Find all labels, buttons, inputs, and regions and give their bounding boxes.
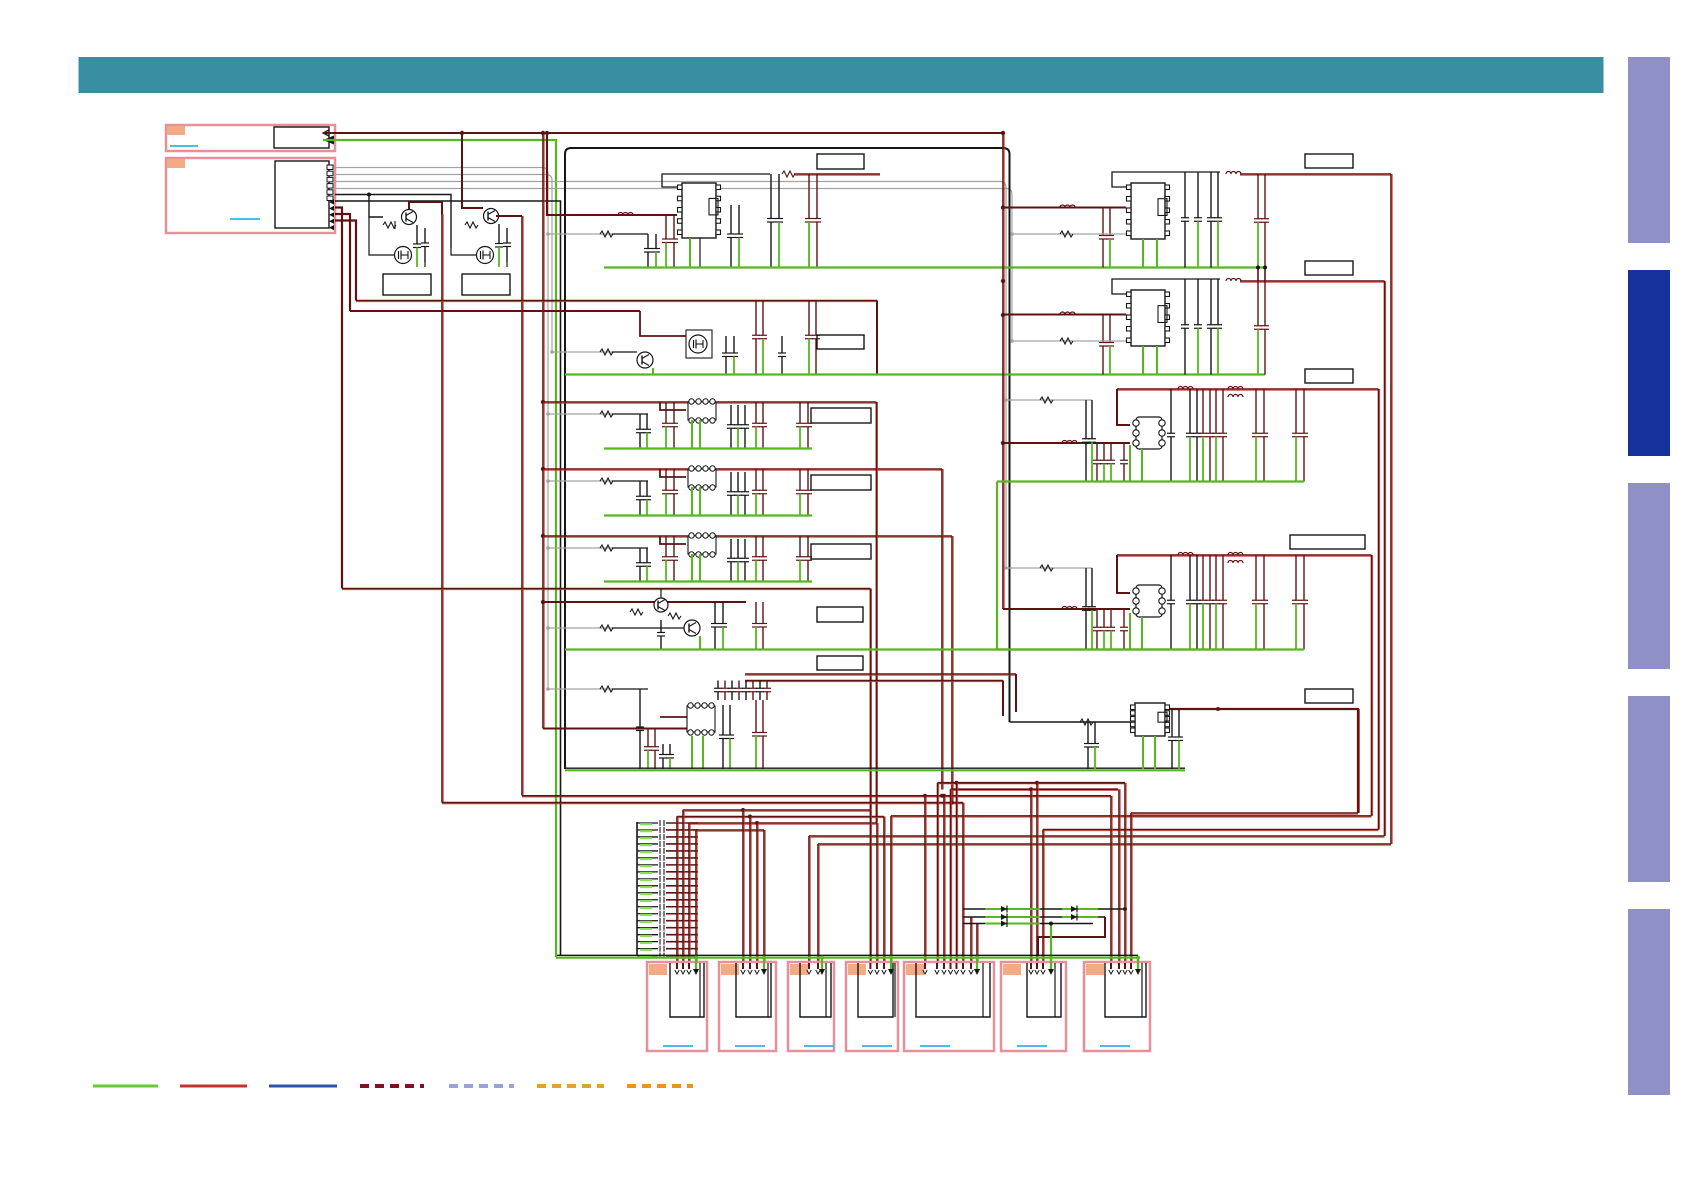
RC5 caps right [1171,709,1173,737]
legend solid red wire [180,1085,247,1088]
bottom black rail [557,954,1138,956]
bundle H12 long [809,836,1385,837]
row5 caps left [639,548,641,563]
CN5 black housing [800,963,831,1017]
CN6 cyan underline [862,1045,892,1047]
row3 green rail [604,447,812,449]
RC3 green rail [997,480,1304,482]
side tab 3 [1628,483,1670,669]
row7 green stubs [691,736,693,769]
maroon drop to lower rows from Q1 [442,214,443,803]
long maroon pair H3 [522,796,1111,797]
bundle H7 [689,823,877,824]
wire green into CN1 [323,136,334,145]
right long vertical V2 [1379,389,1380,830]
row7 green rail with black companion [565,767,1185,769]
connector block CN1 (pink outline) [166,125,335,151]
label box RC2 [1305,261,1353,275]
RC5 output maroon [1170,709,1358,813]
IC U8 [1131,703,1170,736]
bundle H11 long [1043,830,1379,831]
drops to CN-D [925,796,926,963]
legend dashed periwinkle wire [449,1084,514,1088]
bundle H5 [683,810,871,811]
RC1 green stubs [1142,239,1144,268]
CN9 cyan underline [1100,1045,1130,1047]
RC3 maroon input [1003,442,1130,444]
row2 maroon rail upper [356,301,877,302]
CN4 black housing [736,963,771,1017]
black wire CN2 pin 2 [335,201,561,956]
row1 caps right of U1 [730,205,732,234]
row6 green rail [565,648,1265,650]
RC4 green stub under block [1129,613,1131,650]
CN1 cyan label underline [170,145,198,147]
label box RC5 [1305,689,1353,703]
black branch to Q1 base [369,195,383,218]
RC3 outer caps pair [1295,389,1297,433]
diode line D2 [963,916,1105,918]
row7 maroon input [543,728,687,730]
legend dashed amber wire [537,1084,604,1088]
row7 gray input [548,688,612,690]
Q1 emitter caps [416,225,418,244]
bottom connector CN5 (pink outline) [788,962,834,1051]
IC U5 [1127,290,1170,346]
CN7 cyan underline [920,1045,950,1047]
Q3 collector from top rail [462,133,483,208]
IC U1 [678,183,721,238]
RC3 caps right [1170,389,1172,433]
row7 caps left [639,689,641,727]
RC5 black input wire [1010,721,1131,723]
CN6 black pin line [894,963,896,1017]
transformer L2 [660,469,686,477]
label box row6 [817,607,863,622]
CN2 pin squares [327,165,333,170]
gray bus vertical C [1005,187,1007,568]
bundle H9 (regulator loop) [1131,813,1358,814]
black bus vertical main [565,148,571,769]
legend dashed orange wire [627,1084,693,1088]
CN5 cyan underline [804,1045,834,1047]
RC3 green stub under block [1129,445,1131,482]
CN5 green wire arrow [821,958,823,970]
RC1 gray input [1012,233,1126,235]
CN8 black housing [1027,963,1061,1017]
RC2 caps right [1184,279,1186,325]
RC2 green stubs [1142,346,1144,375]
black wire CN2 pin to transistor bases [335,195,451,249]
label box row3 [811,408,871,423]
RC5 input caps [1087,722,1089,744]
xfmr row5 gray input [548,547,612,549]
RC4 gray caps [1085,568,1087,607]
row2 green rail [565,373,1265,375]
RC4 far caps [1255,555,1257,600]
CN6 wire arrows [868,970,872,974]
wire maroon into CN1 [323,130,329,136]
CN3 green wire arrow [695,958,697,970]
drops to CN-C [870,810,871,963]
row4 green stubs [691,487,693,516]
CN3 black pin line [699,963,701,1017]
transistor Q3 (BJT) [484,209,499,224]
right long vertical V3 [1385,281,1386,836]
row1 top rail resistor [782,171,795,177]
CN8 black pin line [1054,963,1056,1017]
mosfet Q2 [395,247,412,264]
gray signal wires from CN2 [335,168,548,174]
regulator block U7 [1133,585,1165,617]
CN4 green wire arrow [763,958,765,970]
label box row2 [817,335,864,349]
pin ladder left rail [636,822,638,956]
row2 right vertical [876,301,878,375]
bottom connector CN6 (pink outline) [846,962,898,1051]
row2 green stub [652,368,654,374]
right long vertical V1 [1372,555,1373,816]
CN3 cyan underline [663,1045,693,1047]
CN4 black pin line [767,963,769,1017]
RC3 maroon top rail [1117,389,1379,390]
row6 gray input [548,627,612,629]
U5 top loop [1112,279,1220,294]
row5 right vertical [952,536,953,803]
CN5 wire arrows [807,970,811,974]
bundle H2 [951,789,1119,790]
gray bus vertical B [551,180,553,352]
teal header bar [79,57,1604,93]
CN3 wire arrows [675,970,679,974]
row4 caps right [730,472,732,492]
diode line D2 return loop [1038,917,1105,956]
RC4 maroon top rail [1117,555,1372,556]
Q1 collector node wiring [409,202,442,214]
xfmr row5 maroon rail [543,536,952,537]
CN2 black box [275,161,329,228]
RC3 far caps [1255,389,1257,433]
RC4 caps right [1170,555,1172,600]
row6 caps [660,620,662,633]
xfmr row3 maroon rail [543,402,876,403]
row6 maroon rail upper [342,589,870,590]
transistor Q1 (BJT) [402,210,417,225]
U5 output rail [1226,279,1241,282]
CN2 cyan label underline [230,218,260,220]
maroon feeder x547 to U1 [547,133,560,215]
row2 gray input [552,351,612,353]
RC1 input caps [1102,208,1104,236]
diode line D3 [963,923,1093,925]
CN1 black box [274,127,329,148]
row1 gray input [548,233,612,235]
row1 green stubs under U1 [689,238,691,267]
ladder bundle vertical d [696,830,697,963]
CN8 cyan underline [1017,1045,1047,1047]
row7 upper maroon rails [745,674,1016,675]
CN8 green wire arrow [1050,958,1052,970]
U1 top wire [662,174,770,187]
RC1 caps right [1184,172,1186,218]
maroon bus x1003 [1003,133,1004,609]
RC3 gray caps [1085,400,1087,439]
maroon drop from Q3 [522,216,523,796]
bottom green rail [556,956,1138,958]
bundle H1 [938,783,1126,784]
ladder bundle vertical b [683,810,684,963]
side tab 4 [1628,696,1670,882]
row3 caps left [639,414,641,429]
black horizontal top bus [571,148,1010,722]
row1 maroon rail [794,174,880,175]
xfmr row4 gray input [548,480,612,482]
CN2 pin arrows [329,199,334,204]
transformer L1 [660,402,686,410]
bottom connector CN3 (pink outline) [647,962,707,1051]
RC4 inductor pair [1228,553,1243,556]
label box RC3 [1305,369,1353,383]
RC1 maroon input to U4 [1003,207,1126,209]
row1 green rail [604,266,1265,268]
side tab 2 (active) [1628,270,1670,456]
RC3 inductor pair [1228,387,1243,390]
CN9 black housing [1105,963,1146,1017]
label box U1 row [817,154,864,169]
row3 green stubs [691,420,693,449]
row2 mosfet Q6 [640,311,686,336]
ladder bundle vertical c [689,823,690,963]
long maroon pair H4 [442,803,963,804]
row6 maroon rail lower [543,601,746,603]
row6 right vertical [870,589,871,810]
CN8 wire arrows [1029,970,1033,974]
maroon wire CN2 a [335,208,342,589]
drops to CN-B [809,836,810,963]
label box T2 [462,274,510,295]
maroon wire CN2 c [335,221,356,301]
xfmr row3 gray input [548,413,612,415]
RC5 green stubs [1142,736,1144,769]
diode line D1 [963,908,1125,910]
gray bus vertical A [547,173,549,689]
label box row7 [817,656,863,670]
RC3 gray input [1006,399,1092,401]
xfmr row4 maroon rail [543,469,942,470]
RC5 maroon rails from left [1002,681,1004,717]
bundle H13 long [818,844,1391,845]
RC3 feeder down to block [1117,389,1130,425]
bottom connector CN9 (pink outline) [1084,962,1150,1051]
U4 output rail [1226,172,1241,175]
transformer L4 [660,716,687,718]
right long vertical V4 [1391,174,1392,844]
row6 transistor Q7 [654,598,668,612]
RC1 maroon caps far right [1257,174,1259,219]
row4 caps left [639,481,641,496]
row7 caps right [722,705,724,735]
drops to CN-F [1111,796,1112,963]
green link between RC3/RC4 rails [996,482,998,650]
row2 maroon rail lower [350,310,640,312]
RC4 feeder down to block [1117,555,1130,593]
RC2 maroon input to U5 [1003,314,1126,316]
maroon wire CN2 b [335,214,350,311]
label box RC4 [1290,535,1365,549]
bottom connector CN7 (pink outline) [904,962,994,1051]
legend solid blue wire [269,1085,337,1088]
bottom connector CN4 (pink outline) [719,962,776,1051]
RC4 input caps [1096,609,1098,627]
RC4 outer caps pair [1295,555,1297,600]
CN7 wire arrows [923,970,927,974]
row5 green rail [604,580,812,582]
resistor R1 [383,222,396,228]
bundle H10 long [891,816,1372,817]
RC4 maroon input [1003,608,1130,610]
resistor R2 [465,222,478,228]
side tab 5 [1628,909,1670,1095]
green drop to CN-E [1050,924,1052,972]
regulator block U6 [1133,417,1165,449]
legend dashed dark red wire [360,1084,424,1088]
CN6 black housing [858,963,893,1017]
ladder bundle vertical a [677,816,678,963]
row1 caps cluster left [647,234,649,249]
RC2 gray input [1012,340,1126,342]
row4 green rail [604,514,812,516]
label box RC1 [1305,154,1353,168]
side tab 1 [1628,57,1670,243]
row6 transistor Q8 [684,620,700,636]
drops to CN-A [743,810,744,963]
gray bus vertical D [1011,194,1013,341]
row1 maroon input to U1 [560,214,677,216]
row4 right vertical [942,469,943,790]
RC2 maroon caps far right [1257,281,1259,326]
row3 caps right [730,405,732,425]
drops to CN-E [1031,789,1032,963]
CN9 green wire arrow [1137,958,1139,970]
row2 transistor Q5 [637,352,653,368]
bottom connector CN8 (pink outline) [1001,962,1066,1051]
CN7 black pin line [982,963,984,1017]
row5 green stubs [691,554,693,582]
CN7 green wire arrow [976,958,978,970]
row6 green stub [699,636,701,649]
Q3 emitter caps [498,224,500,244]
CN9 black pin line [1141,963,1143,1017]
row7 cluster above [717,681,719,689]
mosfet Q4 [477,247,494,264]
pin ladder rungs [637,820,698,826]
bundle H8 [696,830,764,831]
row5 caps right [730,539,732,558]
RC4 green rail [997,648,1304,650]
connector block CN2 (pink outline) [166,158,335,233]
label box row5 [811,544,871,559]
CN5 black pin line [825,963,827,1017]
legend solid green wire [93,1085,158,1088]
transformer L3 [660,536,686,544]
RC3 input caps [1096,443,1098,460]
maroon feeder x543 [543,133,544,729]
CN6 green wire arrow [890,958,892,970]
label box row4 [811,475,871,490]
RC2 input caps [1102,315,1104,343]
CN3 black housing [670,963,704,1017]
CN4 wire arrows [741,970,745,974]
RC4 gray input [1006,567,1092,569]
CN9 wire arrows [1109,970,1113,974]
row1 maroon caps [808,174,810,219]
row3 right vertical [876,402,877,823]
bundle H6 [677,817,884,818]
label box T1 [383,274,431,295]
row2 caps cluster [725,336,727,353]
CN7 black housing [916,963,990,1017]
U4 top loop [1112,172,1220,187]
IC U4 [1127,183,1170,239]
CN4 cyan underline [735,1045,765,1047]
